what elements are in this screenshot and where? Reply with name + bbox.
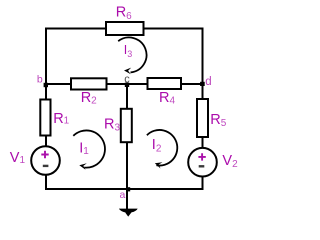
svg-text:a: a [120, 189, 126, 201]
svg-text:b: b [37, 74, 43, 86]
svg-text:c: c [124, 73, 130, 85]
svg-text:d: d [205, 76, 211, 88]
